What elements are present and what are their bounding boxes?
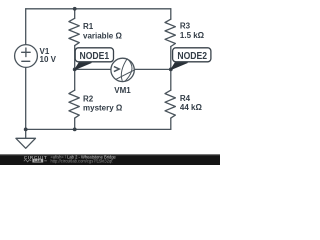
junction dot NODE2 <box>169 68 173 72</box>
svg-text:R2: R2 <box>83 94 94 103</box>
svg-text:VM1: VM1 <box>114 86 131 95</box>
junction dot top rail R1 <box>73 7 77 11</box>
resistor R4 <box>165 90 175 118</box>
node NODE1 flag box <box>75 48 113 62</box>
wire NODE1 junction to R2 <box>74 69 76 90</box>
wire voltmeter right <box>134 68 171 70</box>
svg-text:10 V: 10 V <box>40 55 57 64</box>
wire bottom rail <box>26 128 171 130</box>
svg-text:R1: R1 <box>83 22 94 31</box>
node NODE2 flag tail <box>171 63 188 70</box>
wire R2 to bottom rail <box>74 118 76 129</box>
svg-text:variable Ω: variable Ω <box>83 31 122 40</box>
resistor R2 <box>69 90 79 118</box>
wire left column V1 bottom <box>25 68 27 130</box>
svg-text:NODE2: NODE2 <box>177 51 207 62</box>
resistor R1 <box>69 18 79 45</box>
wire NODE2 junction to R4 <box>170 69 172 90</box>
ground <box>16 138 36 148</box>
svg-text:mystery Ω: mystery Ω <box>83 103 123 112</box>
node NODE1 flag tail <box>75 63 92 70</box>
resistor R3 <box>165 19 175 46</box>
junction dot bottom rail V1/ground <box>24 127 28 131</box>
junction dot bottom rail R2 <box>73 127 77 131</box>
voltage source V1 <box>15 45 38 68</box>
svg-text:44 kΩ: 44 kΩ <box>180 103 203 112</box>
node NODE2 flag box <box>173 48 211 62</box>
svg-text:NODE1: NODE1 <box>80 51 110 62</box>
voltmeter VM1 <box>111 58 136 81</box>
wire middle column R1 stub top <box>74 9 76 18</box>
wire voltmeter left <box>75 68 111 70</box>
wire right column R3 stub top <box>170 9 172 19</box>
junction dot NODE1 <box>73 68 77 72</box>
svg-text:R3: R3 <box>180 22 191 31</box>
svg-text:R4: R4 <box>180 94 191 103</box>
wire ground stub <box>25 129 27 138</box>
wire R4 to bottom rail <box>170 118 172 129</box>
svg-text:1.5 kΩ: 1.5 kΩ <box>180 31 205 40</box>
wire left column V1 top <box>25 9 27 45</box>
wire R1 to NODE1 junction <box>74 46 76 70</box>
wire top rail <box>26 8 171 10</box>
svg-text:http://circuitlab.com/cgs7f15k: http://circuitlab.com/cgs7f15kt32qt <box>51 159 114 164</box>
watermark bar <box>0 154 220 165</box>
svg-text:LAB: LAB <box>34 159 42 163</box>
wire R3 to NODE2 junction <box>170 47 172 70</box>
